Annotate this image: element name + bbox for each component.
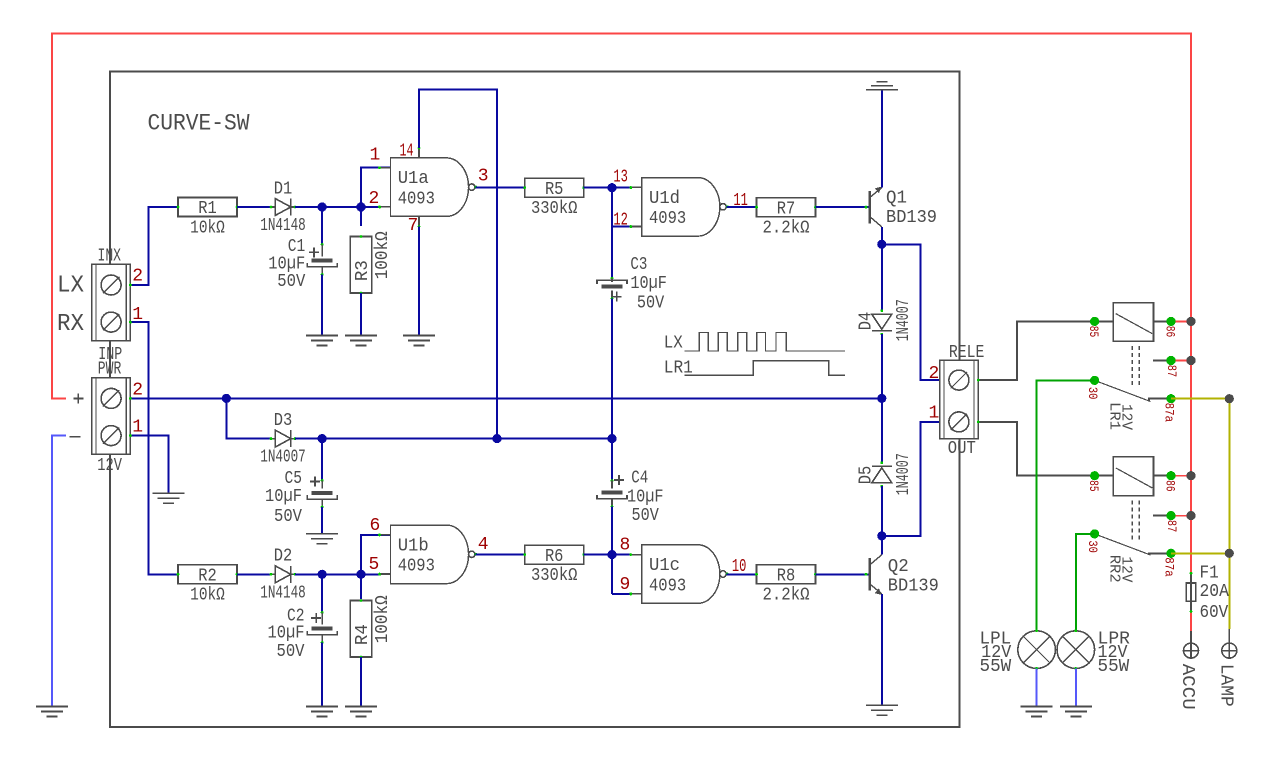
svg-text:4093: 4093 — [649, 576, 686, 596]
junction Q2 collector — [877, 531, 886, 540]
svg-text:14: 14 — [400, 142, 414, 162]
pin dot 87a of LR1 — [1166, 394, 1175, 403]
junction R3 node — [356, 202, 365, 211]
wire red stub to LR1 pin 86 — [1171, 320, 1191, 322]
wire Q1 node to RELE pin2 — [882, 244, 941, 380]
ground for LPL — [1021, 706, 1053, 708]
diode D2 1N4148 — [275, 566, 291, 583]
plus symbol at PWR — [73, 397, 83, 399]
svg-text:1N4148: 1N4148 — [260, 216, 306, 236]
wire pin7 to ground — [418, 227, 420, 336]
pin dot 87 of RR2 — [1166, 511, 1175, 520]
ground for PWR pin1 — [152, 492, 184, 494]
svg-text:55W: 55W — [980, 657, 1012, 677]
svg-text:R3: R3 — [353, 260, 373, 281]
ground for R4 — [345, 706, 377, 708]
pin dot 30 of LR1 — [1090, 376, 1099, 385]
wire -12V light blue from PWR minus to ground — [52, 436, 66, 707]
svg-text:20A: 20A — [1200, 582, 1230, 602]
svg-text:1: 1 — [370, 146, 381, 166]
svg-text:87: 87 — [1164, 520, 1179, 533]
wire down to pin9 of U1c — [611, 555, 613, 594]
junction C1 node — [318, 202, 327, 211]
fuse F1 20A 60V — [1190, 573, 1192, 611]
svg-text:13: 13 — [613, 168, 628, 188]
svg-text:ACCU: ACCU — [1177, 664, 1197, 710]
wire LPR to ground — [1075, 668, 1077, 706]
junction Q1 collector — [877, 240, 886, 249]
wire LPL to ground — [1036, 668, 1038, 706]
svg-text:1N4007: 1N4007 — [894, 453, 914, 495]
diode D3 1N4007 — [275, 430, 291, 447]
svg-text:12V: 12V — [1117, 556, 1134, 582]
svg-text:8: 8 — [620, 536, 631, 556]
wire R8 to Q2 base — [816, 573, 869, 575]
wire U1a pin1 tie to pin2 — [361, 167, 391, 207]
wire Q2 node to RELE pin1 — [882, 422, 941, 536]
svg-text:D4: D4 — [856, 312, 876, 331]
resistor R1 10k — [178, 198, 237, 217]
svg-text:RX: RX — [57, 311, 84, 338]
pin dot 86 of LR1 — [1166, 317, 1175, 326]
wire green LR1 30 to lamp LPL — [1037, 380, 1095, 630]
svg-text:D5: D5 — [856, 466, 876, 485]
lamp LPR 12V 55W — [1057, 631, 1095, 669]
svg-text:9: 9 — [620, 575, 631, 595]
svg-text:10kΩ: 10kΩ — [190, 218, 225, 238]
svg-text:OUT: OUT — [948, 439, 976, 459]
diode D5 1N4007 — [872, 465, 892, 467]
junction at pin13/C3 — [607, 183, 616, 192]
svg-text:4: 4 — [478, 535, 489, 555]
wire R3 top lead — [360, 207, 362, 226]
capacitor C2 10uF 50V — [312, 627, 333, 631]
op NAND gate U1b 4093 — [391, 525, 469, 584]
pin dot 85 of RR2 — [1090, 471, 1099, 480]
wire pin14 supply loop to D3 rail — [419, 90, 497, 439]
svg-text:7: 7 — [408, 216, 419, 236]
transistor Q1 BD139 — [869, 191, 872, 224]
junction at pin8/C4 — [607, 550, 616, 559]
junction olive corner — [1225, 394, 1234, 403]
svg-text:6: 6 — [370, 516, 381, 536]
svg-text:2.2kΩ: 2.2kΩ — [763, 586, 810, 606]
svg-text:R6: R6 — [545, 547, 564, 567]
terminal LAMP — [1228, 629, 1230, 643]
svg-text:U1d: U1d — [649, 189, 680, 209]
capacitor C1 10uF 50V — [312, 259, 333, 263]
ground for C5 — [306, 533, 338, 535]
wire PWR pin1 to ground — [130, 436, 168, 494]
wire C3 bottom lead to D3 rail — [611, 291, 613, 299]
capacitor C3 10uF 50V flipped — [611, 277, 614, 280]
svg-text:4093: 4093 — [398, 190, 435, 210]
svg-text:BD139: BD139 — [886, 208, 937, 228]
svg-text:4093: 4093 — [649, 209, 686, 229]
wire R5 to U1d pin13 — [584, 187, 631, 189]
ground for C1 — [306, 335, 338, 337]
svg-text:10µF: 10µF — [627, 488, 664, 508]
wire U1a output to R5 — [476, 186, 525, 188]
wire R4 top lead — [360, 574, 362, 599]
diode D4 1N4007 — [872, 314, 892, 329]
svg-text:R4: R4 — [353, 624, 373, 645]
wire C5 bottom lead to ground — [321, 499, 323, 507]
svg-text:2: 2 — [369, 189, 380, 209]
wire R6 to U1c pin8 — [584, 554, 631, 556]
wire olive RR2 87a joins — [1171, 552, 1229, 554]
svg-text:Q2: Q2 — [888, 557, 909, 577]
ground above Q1 inverted — [866, 89, 898, 91]
pin 7 stub of U1a — [418, 217, 420, 227]
svg-text:2.2kΩ: 2.2kΩ — [763, 218, 810, 238]
svg-text:2: 2 — [929, 364, 940, 384]
junction C3/C4 column on D3 rail — [607, 434, 616, 443]
ground for C2 — [306, 706, 338, 708]
wire +12V red supply from battery: left and top runs — [52, 33, 1191, 573]
svg-text:LX: LX — [664, 334, 683, 354]
transistor Q2 BD139 — [869, 558, 872, 591]
ground below Q2 — [866, 704, 898, 706]
junction at D3 branch on +12 rail — [222, 394, 231, 403]
svg-text:86: 86 — [1163, 326, 1178, 338]
resistor R7 2.2k — [757, 198, 816, 217]
svg-text:50V: 50V — [637, 294, 664, 314]
wire R4 bottom lead to ground — [360, 657, 362, 707]
op NAND gate U1d 4093 — [642, 178, 720, 237]
pin dot 86 of RR2 — [1166, 471, 1175, 480]
frame border — [110, 72, 960, 728]
svg-text:4093: 4093 — [398, 557, 435, 577]
svg-text:PWR: PWR — [98, 360, 122, 380]
junction feedback vertical on D3 rail — [492, 434, 501, 443]
ground for LPR — [1060, 706, 1092, 708]
wire R3 bottom lead to ground — [360, 293, 362, 336]
svg-text:50V: 50V — [277, 272, 305, 292]
svg-text:85: 85 — [1086, 326, 1101, 338]
contact 87 stub LR1 — [1153, 360, 1171, 362]
ground for R3 — [345, 335, 377, 337]
junction 86 on red rail — [1186, 317, 1195, 326]
pin 14 stub of U1a — [418, 148, 420, 158]
svg-text:2: 2 — [132, 267, 143, 287]
wire branch down to D3 — [226, 398, 271, 438]
wire R7 to Q1 base — [816, 206, 869, 208]
connector RELE terminal block — [940, 360, 979, 438]
wire red stub to RR2 pin 86 — [1171, 475, 1191, 477]
wire C1 bottom lead to ground — [321, 267, 323, 275]
wire +12 rail to D5 — [881, 398, 883, 462]
svg-text:D1: D1 — [274, 179, 293, 199]
svg-text:10kΩ: 10kΩ — [190, 586, 225, 606]
svg-text:100kΩ: 100kΩ — [373, 231, 393, 279]
svg-text:330kΩ: 330kΩ — [531, 199, 578, 219]
minus symbol at PWR — [70, 436, 81, 438]
svg-text:60V: 60V — [1200, 603, 1229, 623]
pin dot 30 of RR2 — [1090, 529, 1099, 538]
svg-text:85: 85 — [1086, 480, 1101, 492]
junction olive at RR2 87a — [1225, 549, 1234, 558]
junction at diode column on +12 rail — [877, 394, 886, 403]
resistor R3 100k — [350, 237, 372, 294]
ground for minus wire — [36, 706, 68, 708]
svg-text:1N4007: 1N4007 — [894, 299, 914, 341]
wire D1 cathode to U1a input pin2 — [295, 206, 380, 208]
wire +12V rail from PWR pin2 to D4/D5 column — [130, 397, 881, 399]
wire U1b output to R6 — [476, 554, 525, 556]
lamp LPL 12V 55W — [1018, 631, 1056, 669]
svg-text:87a: 87a — [1161, 403, 1176, 423]
wire Q1 collector node — [881, 227, 883, 311]
junction 86 RR2 on red rail — [1186, 471, 1195, 480]
wire Q2 emitter to bottom ground — [881, 594, 883, 706]
junction 87 on red rail — [1186, 356, 1195, 365]
op NAND gate U1a 4093 — [391, 158, 469, 217]
svg-text:10µF: 10µF — [268, 624, 305, 644]
svg-text:330kΩ: 330kΩ — [531, 566, 578, 586]
ground for U1a pin7 — [403, 335, 435, 337]
svg-text:87a: 87a — [1161, 557, 1176, 577]
svg-text:1N4148: 1N4148 — [260, 583, 306, 603]
svg-text:C4: C4 — [631, 469, 648, 489]
wire LX: INX pin2 to R1 row — [130, 207, 178, 285]
svg-text:10µF: 10µF — [630, 274, 667, 294]
svg-text:1: 1 — [929, 404, 940, 424]
coupling dashes RR2 — [1131, 500, 1133, 540]
svg-text:87: 87 — [1164, 365, 1179, 378]
wire R1 input row — [148, 206, 178, 208]
wire C5 top lead — [321, 439, 323, 481]
svg-text:LX: LX — [57, 273, 84, 300]
wire C2 top lead — [321, 574, 323, 612]
svg-text:F1: F1 — [1200, 563, 1219, 583]
svg-text:R8: R8 — [777, 567, 796, 587]
wire pin12 of U1d — [612, 226, 631, 228]
svg-text:5: 5 — [369, 555, 380, 575]
wire D3 cathode rail to C3/C4 column — [295, 438, 612, 440]
svg-text:86: 86 — [1163, 480, 1178, 492]
svg-text:30: 30 — [1085, 387, 1100, 400]
svg-text:55W: 55W — [1098, 657, 1130, 677]
wire U1d output 11 to R7 — [727, 206, 757, 208]
contact 87 stub RR2 — [1153, 515, 1171, 517]
svg-text:12: 12 — [613, 211, 628, 231]
wire down to pin12 and C3 — [611, 188, 613, 279]
wire Q2 collector up to node — [881, 536, 883, 555]
wire Q1 emitter to top ground — [881, 90, 883, 188]
wire C1 top lead — [321, 207, 323, 245]
wire RX: INX pin1 down to R2 row — [130, 322, 178, 574]
pin dot 85 of LR1 — [1090, 317, 1099, 326]
wire RELE pin2 to LR1 coil — [978, 321, 1094, 380]
resistor R2 10k — [178, 565, 237, 584]
svg-text:R2: R2 — [198, 567, 217, 587]
diode D1 1N4148 — [275, 199, 291, 216]
wire red stub to LR1 pin 87 — [1171, 360, 1191, 362]
svg-text:D3: D3 — [274, 411, 293, 431]
resistor R6 330k — [525, 545, 584, 564]
coupling dashes LR1 — [1131, 346, 1133, 386]
svg-text:CURVE-SW: CURVE-SW — [148, 111, 250, 137]
wire green RR2 30 to lamp LPR — [1076, 534, 1095, 631]
capacitor C5 10uF 50V — [312, 491, 333, 495]
svg-text:U1b: U1b — [398, 536, 429, 556]
connector INX terminal block — [92, 264, 130, 341]
terminal ACCU — [1190, 631, 1192, 643]
wire R1 to D1 — [237, 206, 271, 208]
wire C2 bottom lead to ground — [321, 635, 323, 643]
svg-text:U1c: U1c — [649, 556, 680, 576]
wire U1b pin6 tie to pin5 — [361, 535, 391, 574]
junction C2 node — [318, 570, 327, 579]
wire RELE pin1 to RR2 coil — [978, 422, 1094, 476]
wire D2 cathode to U1b pin5 — [295, 573, 380, 575]
svg-text:Q1: Q1 — [886, 189, 907, 209]
wire red stub to RR2 pin 87 — [1171, 515, 1191, 517]
svg-text:3: 3 — [478, 166, 489, 186]
junction 87 RR2 on red rail — [1186, 511, 1195, 520]
svg-text:INX: INX — [98, 246, 122, 266]
svg-text:RELE: RELE — [949, 343, 985, 363]
pin dot 87a of RR2 — [1166, 549, 1175, 558]
relay RR2 coil — [1113, 457, 1153, 496]
wire U1c output 10 to R8 — [727, 573, 757, 575]
resistor R5 330k — [525, 178, 584, 197]
wire C4 top lead from D3 rail — [611, 439, 613, 481]
svg-text:100kΩ: 100kΩ — [373, 595, 393, 643]
resistor R4 100k — [350, 601, 372, 658]
wire D4 cathode to +12 rail — [881, 334, 883, 398]
op NAND gate U1c 4093 — [642, 545, 720, 604]
svg-text:D2: D2 — [274, 547, 293, 567]
svg-text:C3: C3 — [630, 255, 647, 275]
wire olive LR1 87a to LAMP terminal — [1171, 399, 1229, 629]
junction C5 on D3 rail — [318, 434, 327, 443]
svg-text:50V: 50V — [274, 507, 302, 527]
switch arm RR2 — [1097, 535, 1151, 555]
svg-text:50V: 50V — [277, 642, 305, 662]
svg-text:R1: R1 — [198, 199, 217, 219]
svg-text:U1a: U1a — [398, 169, 429, 189]
svg-text:12V: 12V — [97, 456, 122, 476]
junction R4 node — [356, 570, 365, 579]
svg-text:1N4007: 1N4007 — [260, 448, 306, 468]
svg-text:12V: 12V — [1117, 404, 1134, 430]
switch arm LR1 — [1097, 381, 1151, 401]
svg-text:11: 11 — [733, 191, 748, 211]
svg-text:R7: R7 — [777, 199, 796, 219]
pin dot 87 of LR1 — [1166, 356, 1175, 365]
relay LR1 coil — [1113, 303, 1153, 342]
svg-text:10µF: 10µF — [265, 487, 302, 507]
svg-text:C5: C5 — [285, 469, 303, 489]
svg-text:R5: R5 — [545, 180, 564, 200]
wire red fuse to ACCU terminal — [1190, 612, 1192, 632]
capacitor C4 10uF 50V — [602, 491, 623, 495]
wire pin9 of U1c — [612, 593, 631, 595]
svg-text:BD139: BD139 — [888, 576, 939, 596]
connector PWR terminal block — [92, 378, 130, 455]
svg-text:LAMP: LAMP — [1215, 664, 1235, 707]
svg-text:30: 30 — [1085, 540, 1100, 553]
wire C4 bottom lead to pin8 node — [611, 499, 613, 507]
wire R2 to D2 — [237, 573, 271, 575]
wire D5 anode to Q2 collector node — [881, 486, 883, 555]
svg-text:50V: 50V — [632, 506, 659, 526]
resistor R8 2.2k — [757, 565, 816, 584]
